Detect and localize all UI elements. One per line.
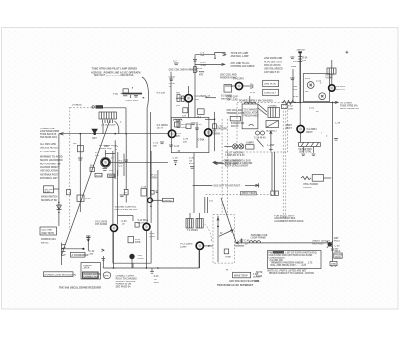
wire line cord ticks [290,57,298,63]
svg-text:POST: POST [334,241,341,243]
resistor R9 [177,121,187,129]
antenna symbol [91,129,98,140]
svg-text:BAND SWITCH: BAND SWITCH [41,196,58,199]
svg-text:C-26: C-26 [183,139,189,141]
svg-text:C-14: C-14 [174,145,180,148]
svg-text:ANT COIL AND: ANT COIL AND [226,109,243,112]
note: tuning coil note [40,128,59,139]
svg-text:TO PILOT LAMP: TO PILOT LAMP [231,52,249,55]
svg-text:DROP RESISTOR: DROP RESISTOR [340,108,359,110]
capacitor C14 marks [169,145,180,148]
svg-text:C-32: C-32 [124,189,130,191]
svg-text:OSC: OSC [104,146,109,148]
svg-text:R-10: R-10 [199,72,205,74]
svg-text:GND: GND [331,264,336,266]
cathode marks under mixer [103,169,108,171]
wire twin grid column [106,152,125,176]
note: frame caption dots [226,269,227,270]
capacitor C40 labels mid [122,220,140,227]
diode CR1 [57,202,62,213]
ground lug box [330,262,337,267]
svg-text:WARNING TO AVOID: WARNING TO AVOID [40,156,63,159]
trimmer cap row [92,105,126,134]
svg-text:470K: 470K [201,64,207,67]
svg-text:R-15: R-15 [86,198,92,200]
selenium rectifier CR2 [266,121,279,133]
capacitor C38 box [141,187,147,197]
svg-text:C-41: C-41 [154,275,160,278]
wire left branch vertical [58,134,60,226]
svg-text:R-24: R-24 [302,56,308,59]
svg-text:ANTENNA COIL: ANTENNA COIL [251,234,269,237]
note: B+ label [297,50,309,62]
capacitor C15 [191,123,202,126]
svg-text:ADJUSTMENT SEE: ADJUSTMENT SEE [274,217,295,220]
note: heater wiring note text [91,67,141,77]
svg-text:LINE CORD AND: LINE CORD AND [264,57,283,60]
wire padder top stub [205,96,216,98]
wire antenna lead diagonal [221,198,236,242]
svg-text:UNLESS NOTED: UNLESS NOTED [40,148,58,150]
svg-text:400 KC: 400 KC [231,125,239,128]
wire det feed [193,153,195,213]
svg-text:PLUG SEE TEXT: PLUG SEE TEXT [264,62,283,64]
wire top feed with arrow [195,53,226,60]
note: osc note [41,238,56,244]
capacitor C30 [302,147,306,156]
svg-text:LIST OF EXTRA PARTS REQ: LIST OF EXTRA PARTS REQ [286,251,317,254]
coil L4 inside IF box [174,119,182,120]
svg-text:DIAL AND DRIVE ASSY . . . . 2: DIAL AND DRIVE ASSY . . . . 2.20 [271,264,307,267]
svg-text:USE ISOLATION: USE ISOLATION [40,170,58,173]
svg-text:C-20: C-20 [293,61,299,63]
svg-text:ALIGNMENT NOTES PAGE: ALIGNMENT NOTES PAGE [274,220,304,223]
svg-text:1ST AUDIO: 1ST AUDIO [95,223,107,226]
wire line cord vertical [290,66,296,102]
svg-text:220K: 220K [150,236,156,238]
svg-text:PICKUP: PICKUP [303,187,312,189]
svg-text:R-32: R-32 [150,233,156,235]
resistor R2 agc [73,134,83,212]
resistor R1 ballast bar [113,87,144,102]
capacitor C7 cluster [173,61,178,65]
svg-text:SEL RECT: SEL RECT [266,131,278,133]
svg-text:FREQ RANGE: FREQ RANGE [243,115,259,118]
transformer T2 second IF [186,213,203,232]
switch S1 wafer label [44,186,59,194]
shield pair pads [271,191,279,195]
svg-text:OSCILLATOR: OSCILLATOR [243,112,258,115]
svg-text:CONTROLLED GRIDS: CONTROLLED GRIDS [231,66,255,68]
capacitor C17 cluster [86,236,90,241]
resistor R23 candohm [299,142,321,153]
svg-text:OSC UNIT: OSC UNIT [42,230,54,232]
svg-text:C-12: C-12 [250,92,256,94]
wire below terminal [331,239,341,262]
capacitor C16 electrolytic [254,131,266,140]
line cord box [263,89,279,95]
switch S2 band [221,85,232,101]
tube V2 oscillator [176,86,206,102]
tube V10 first audio [95,220,118,268]
resistor R8 labels [104,146,113,172]
volume control R31 [129,254,144,268]
capacitor C1 gang label box [71,252,89,257]
svg-text:POWER IS ON: POWER IS ON [116,284,132,286]
leader to converter grid [205,224,212,242]
svg-text:SEE TEXT — — — — — SEE DETAIL: SEE TEXT — — — — — SEE DETAIL [94,74,134,77]
capacitor C21 labels [309,108,319,114]
capacitor C40 [102,259,106,261]
svg-text:100K: 100K [181,127,187,129]
svg-text:TUBE HTRS AND PILOT LAMP SERIE: TUBE HTRS AND PILOT LAMP SERIES [92,67,138,70]
svg-text:FOR AC OR DC: FOR AC OR DC [264,64,281,67]
svg-text:P (3): P (3) [113,93,118,95]
svg-text:1ST IF: 1ST IF [96,175,103,177]
svg-text:TO OTHER: TO OTHER [340,103,352,105]
svg-text:LINE PLUG: LINE PLUG [264,84,276,86]
svg-text:R-11: R-11 [176,133,182,135]
wire second feed with arrow [195,63,225,65]
svg-text:4TB: 4TB [255,280,260,283]
coil L2 oscillator can [242,102,259,129]
svg-text:ALL RES 1/2W: ALL RES 1/2W [40,143,57,146]
svg-text:CHOKE: CHOKE [269,106,278,108]
svg-text:TRIMMERS PADDERS KNOBS . . . 1: TRIMMERS PADDERS KNOBS . . . 1.75 [271,262,314,265]
svg-text:C-102: C-102 [169,77,176,79]
svg-text:CONNECT SPKR: CONNECT SPKR [116,276,135,278]
interlock label box [44,272,77,277]
wire B+ feed [298,51,302,103]
note: resistor values note [40,143,58,153]
note: antenna note [40,174,59,181]
svg-text:A CONDENSER: A CONDENSER [72,254,89,257]
resistor R6 stack [176,93,184,108]
svg-text:470K: 470K [135,241,141,244]
svg-text:R-22: R-22 [288,106,294,108]
svg-text:ON: ON [293,89,297,91]
wire osc second vertical [170,72,172,132]
resistor R4 [90,165,94,172]
transformer T4 output [327,60,336,74]
svg-text:455KC TRAP: 455KC TRAP [242,192,257,195]
svg-text:C-40: C-40 [122,220,128,223]
note: warning note [40,156,63,173]
wire pair C shielded [272,152,275,191]
svg-text:47K: 47K [199,74,204,77]
note: output tube label [138,220,149,225]
note: shield note [215,160,253,168]
wire to gang [62,248,85,250]
wire osc output arrow [193,183,259,187]
svg-text:CAP SEE P 30: CAP SEE P 30 [264,71,280,74]
svg-text:CONV: CONV [180,247,187,249]
dashed pair A lamp leads [222,119,227,215]
resistor R14 on shield edge [67,190,71,195]
note: line column labels [293,86,299,98]
tuning unit dashed enclosure [70,107,127,230]
switch S1B contacts [62,243,66,266]
IF can dashed enclosure [213,215,235,264]
svg-text:(POWER CORD INTERLOCK): (POWER CORD INTERLOCK) [45,274,77,276]
svg-text:RECT: RECT [286,128,293,130]
svg-text:L-DET 35Z5: L-DET 35Z5 [126,100,139,102]
svg-text:ANT: ANT [92,137,97,140]
svg-text:LOW BAND PRIM: LOW BAND PRIM [40,130,59,133]
svg-text:MICA: MICA [335,250,341,253]
wire ant lead arrow [268,131,275,152]
capacitor C1 labels [95,152,100,157]
svg-text:PILOT AND DIAL: PILOT AND DIAL [226,152,245,155]
svg-text:C-13: C-13 [153,143,159,145]
wire grid column [115,140,124,179]
tube V12 detector avc [148,160,174,240]
note: ant post labels [334,237,341,243]
svg-text:SOCKET BEFORE: SOCKET BEFORE [116,281,136,283]
note: output label [325,75,335,80]
svg-text:POWER SUPPLY (IN CHASSIS): POWER SUPPLY (IN CHASSIS) [239,100,273,103]
parts table [268,251,322,269]
svg-text:WAVE TRAP: WAVE TRAP [234,274,248,277]
capacitor C41 [150,268,159,284]
tube V3 first IF [157,124,176,138]
svg-text:KEEP LEADS SHORT: KEEP LEADS SHORT [225,165,249,168]
svg-text:AVC LINE TO ALL: AVC LINE TO ALL [231,62,251,65]
resistor R11 labels [176,133,182,138]
svg-text:1ST IF: 1ST IF [157,128,164,130]
svg-text:THE MAIN COIL: THE MAIN COIL [40,136,58,139]
line cord plug box [263,80,279,86]
note: grid cap note [226,96,238,102]
svg-text:V-9 35W4: V-9 35W4 [306,128,317,131]
battery B1 and pilot lamps [224,142,254,158]
svg-text:VOL: VOL [137,255,142,257]
svg-text:GRID CAP: GRID CAP [226,96,238,99]
tube V9 rectifier [286,102,318,142]
note: converter label [99,145,118,150]
svg-text:CHASSIS DIRECT: CHASSIS DIRECT [40,166,60,169]
tube V5 detector [225,78,250,90]
resistor R32 labels [150,233,156,238]
svg-text:(SPKR): (SPKR) [164,200,172,202]
svg-text:OUTPUT: OUTPUT [336,89,346,91]
resistor R22 [282,105,294,111]
switch S3 wave band [230,116,245,127]
transformer T1 antenna coil [99,112,122,134]
svg-text:B BAND SW: B BAND SW [231,122,245,125]
svg-text:R-13: R-13 [152,175,158,177]
svg-text:600 KC: 600 KC [41,242,49,244]
svg-text:AND DIAL LAMP: AND DIAL LAMP [231,55,250,58]
crystal Y1 [301,175,331,190]
svg-text:455 KC: 455 KC [108,175,116,178]
svg-text:OSC COIL AND: OSC COIL AND [220,74,237,77]
svg-text:(SEE TEXT): (SEE TEXT) [42,233,55,235]
svg-text:TRIM: TRIM [225,257,231,259]
svg-text:R-5 22K: R-5 22K [157,93,166,95]
note: volume note [115,206,139,211]
note: table footnote [268,269,315,275]
note: switch note [41,196,58,202]
svg-text:C-24A: C-24A [198,139,205,142]
note: selectivity note lower [274,216,304,223]
resistor R16 [194,67,205,73]
svg-text:SHORT CIRCUIT: SHORT CIRCUIT [312,241,331,243]
svg-text:4 DB: 4 DB [253,273,259,276]
wire grid lead with arrow [213,160,241,166]
svg-text:TRIMMER CAPS: TRIMMER CAPS [226,112,244,115]
note: heater run label [340,103,359,111]
note: line cord note [264,57,283,74]
svg-text:250V B+: 250V B+ [297,50,307,52]
svg-text:V-13 12BE6: V-13 12BE6 [180,244,193,246]
svg-text:ANT: ANT [334,237,339,240]
svg-text:NOTE ALL PARTS LISTED ARE NET: NOTE ALL PARTS LISTED ARE NET [268,269,308,272]
svg-text:R-21: R-21 [293,96,299,98]
wire antenna bus [235,242,330,244]
wire output column [146,107,148,223]
tube V13 converter osc [180,242,213,268]
wire main bus [59,132,168,135]
svg-text:C-38: C-38 [141,187,147,189]
svg-text:SHOWN AT BC: SHOWN AT BC [41,199,58,202]
svg-text:LAMPS: LAMPS [246,142,255,145]
svg-text:C-10: C-10 [335,123,341,125]
svg-text:R-30: R-30 [135,239,141,241]
svg-text:PRICES SUBJECT TO CHANGE - NOT: PRICES SUBJECT TO CHANGE - NOTICE [269,272,314,275]
wire leader from note [142,77,149,107]
svg-text:PADDER ADJ: PADDER ADJ [41,238,56,241]
svg-text:DOWN: DOWN [253,277,261,279]
svg-text:LINE: LINE [291,66,297,68]
arrow pickup [102,249,105,251]
resistor R7 [197,109,204,119]
audio enclosure box [113,151,151,268]
output stage box U1 [303,74,329,102]
svg-text:OUTPUT: OUTPUT [325,75,335,77]
tube V4 second IF [205,129,221,136]
capacitor C5 [193,52,206,67]
svg-text:C-14: C-14 [89,250,95,253]
svg-text:VOLUME CONTROL: VOLUME CONTROL [115,206,137,208]
capacitor C100 [169,83,176,88]
svg-text:TUNE BACK IS: TUNE BACK IS [40,133,57,136]
svg-text:MIXER OSC: MIXER OSC [99,148,112,150]
svg-text:K = 1000 OHM: K = 1000 OHM [40,151,55,153]
note: lamp feed label [231,52,250,58]
svg-text:1200 TOTAL: 1200 TOTAL [299,151,313,154]
svg-text:RECT: RECT [306,132,313,134]
svg-text:MULTIPLIER ON-OFF: MULTIPLIER ON-OFF [115,209,139,211]
speaker P1 [103,272,111,279]
svg-text:V-10 12AT6: V-10 12AT6 [95,220,108,223]
wire heater run [288,101,338,103]
svg-text:LAMP NO 47 6.3V: LAMP NO 47 6.3V [226,154,246,157]
svg-text:TUBE HTRS VIA: TUBE HTRS VIA [340,104,358,107]
svg-text:OSC OUT TO ANT POST: OSC OUT TO ANT POST [214,185,241,188]
svg-text:JACK: JACK [83,267,90,270]
svg-text:ANTENNA POST: ANTENNA POST [40,174,59,177]
svg-text:(TUNER): (TUNER) [72,105,82,107]
IF stage label box 1 [95,173,103,177]
dashed pair B dial leads [283,104,286,218]
svg-text:PLUG TO CHASSIS: PLUG TO CHASSIS [116,277,137,280]
svg-text:XTAL PHONO: XTAL PHONO [303,183,318,186]
phono jack box [81,263,102,279]
svg-text:C-16 40-40: C-16 40-40 [254,137,266,140]
svg-text:SPK: SPK [104,275,109,277]
tube V8 output [320,74,346,91]
svg-text:NOT GROUND THE: NOT GROUND THE [40,164,61,166]
svg-text:ANT POST: ANT POST [312,242,324,245]
svg-text:LOOP FRAME: LOOP FRAME [251,237,267,240]
terminal junction blob [312,241,333,248]
svg-text:C-100: C-100 [169,83,176,85]
svg-text:L-ANT: L-ANT [268,144,275,147]
wire detector column [157,170,159,186]
plus mark [346,51,349,54]
svg-text:OSC: OSC [194,99,199,101]
svg-text:T-2 455KC: T-2 455KC [187,229,198,232]
wire agc column [124,133,128,203]
svg-text:C-50: C-50 [335,246,341,248]
note: osc coil padder note [220,74,238,80]
svg-text:C-29: C-29 [173,158,179,160]
wire audio column [118,170,134,225]
coil L3 antenna loop [238,234,269,243]
svg-text:TUNING COIL: TUNING COIL [40,128,56,130]
svg-text:TOP LEAD: TOP LEAD [226,98,238,101]
svg-text:V-8 50L6: V-8 50L6 [336,86,346,88]
svg-text:470K: 470K [152,176,158,179]
svg-text:V-5 12AT6: V-5 12AT6 [233,78,245,81]
wire padder vertical [205,112,227,151]
wire mixer to IF box [110,161,168,163]
svg-text:EXTERNAL ANT: EXTERNAL ANT [40,177,58,180]
capacitor C45 [235,238,251,246]
capacitor C9 [182,108,188,118]
note: avc feed label [231,62,255,68]
note: pin numbers [321,133,328,138]
svg-text:SEE PAGE 34: SEE PAGE 34 [116,285,131,288]
svg-text:R-15: R-15 [201,62,207,64]
shield bus dashed with label box [206,192,277,196]
resistor R13 labels [152,175,158,180]
wire long right vertical [333,102,341,238]
wire bottom bus [103,267,199,269]
svg-text:S-1A: S-1A [45,191,51,194]
phone jack label box [334,253,343,259]
curved pointer [257,139,264,147]
IF amp enclosure box [171,103,209,153]
wire phono feed vertical [86,236,95,256]
capacitor C102 [169,77,176,81]
svg-text:C-15: C-15 [196,124,202,126]
svg-text:C-21: C-21 [309,108,315,110]
wire stub top of L2 [249,96,251,102]
svg-text:JACK: JACK [335,256,342,259]
wire av line [102,256,104,268]
note: margin marks [255,272,263,283]
capacitor C12 [250,84,256,95]
svg-text:C-18: C-18 [205,96,211,98]
note: ant coil note [226,109,244,115]
resistor R15 box [77,195,91,202]
power supply dashed enclosure [237,103,288,153]
svg-text:PARTS: PARTS [269,251,277,254]
wire T2 top leads [205,197,214,213]
svg-text:TWO BAND AC-DC SUPERHET: TWO BAND AC-DC SUPERHET [217,284,254,287]
